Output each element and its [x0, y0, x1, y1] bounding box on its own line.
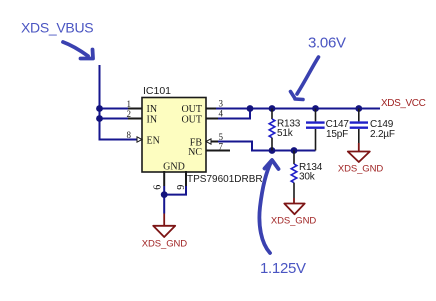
resistor R133	[269, 109, 301, 151]
svg-text:EN: EN	[147, 136, 160, 147]
svg-text:51k: 51k	[277, 128, 294, 139]
wire pin4 to VCC	[218, 109, 250, 119]
svg-text:XDS_VCC: XDS_VCC	[381, 98, 426, 109]
node junction pin1	[96, 105, 103, 112]
pin 6 stub	[163, 171, 165, 186]
svg-text:XDS_GND: XDS_GND	[338, 164, 383, 175]
node junction R133 top	[269, 105, 276, 112]
svg-text:3: 3	[219, 99, 224, 109]
svg-text:2: 2	[127, 109, 132, 119]
svg-text:4: 4	[219, 109, 224, 119]
svg-text:NC: NC	[188, 147, 202, 158]
svg-text:8: 8	[127, 130, 132, 140]
pin 2 stub	[128, 118, 142, 120]
pin 1 stub	[128, 108, 142, 110]
ground XDS_GND under IC	[142, 214, 187, 250]
svg-text:15pF: 15pF	[326, 129, 348, 140]
capacitor C149	[350, 109, 395, 144]
wire pin1	[100, 108, 129, 110]
svg-text:TPS79601DRBR: TPS79601DRBR	[187, 174, 263, 185]
ground XDS_GND under C149	[338, 143, 383, 175]
pin 7 stub NC	[206, 150, 230, 152]
pin EN input triangle	[137, 137, 142, 142]
svg-text:OUT: OUT	[181, 115, 202, 126]
annotation arrow to 1.125V node	[259, 160, 278, 253]
wire GND pin6	[163, 186, 165, 214]
svg-text:2.2µF: 2.2µF	[370, 129, 395, 140]
node junction C149 top	[355, 105, 362, 112]
node junction pin4/VCC	[247, 105, 254, 112]
svg-text:OUT: OUT	[181, 104, 202, 115]
svg-text:IC101: IC101	[143, 85, 171, 97]
pin 5 stub	[206, 141, 218, 143]
svg-text:IN: IN	[147, 104, 158, 115]
IC U=IC101 body	[142, 98, 206, 173]
svg-text:GND: GND	[163, 162, 185, 173]
svg-text:30k: 30k	[299, 172, 316, 183]
pin 3 stub	[206, 108, 218, 110]
pin FB output triangle	[206, 139, 211, 144]
wire pin2	[100, 118, 129, 120]
svg-text:1: 1	[127, 99, 132, 109]
pin 9 stub	[185, 171, 187, 186]
node junction R133 bottom	[269, 147, 276, 154]
svg-text:1.125V: 1.125V	[260, 260, 306, 277]
annotation arrow to XDS_VBUS wire	[63, 42, 93, 59]
wire VCC net	[216, 108, 380, 110]
node junction R134 top	[291, 147, 298, 154]
svg-text:IN: IN	[147, 115, 158, 126]
node junction GND	[161, 191, 168, 198]
svg-text:XDS_GND: XDS_GND	[271, 216, 316, 227]
wire GND pin9	[164, 186, 186, 195]
wire FB net	[218, 142, 316, 151]
svg-text:XDS_GND: XDS_GND	[142, 239, 187, 250]
ground XDS_GND under R134	[271, 198, 316, 227]
node junction C147 top	[312, 105, 319, 112]
svg-text:3.06V: 3.06V	[308, 34, 346, 51]
svg-text:6: 6	[153, 185, 164, 190]
pin 4 stub	[206, 118, 218, 120]
svg-text:5: 5	[219, 132, 224, 142]
svg-text:XDS_VBUS: XDS_VBUS	[21, 20, 93, 36]
wire XDS_VBUS vertical bus	[100, 65, 138, 140]
node junction pin2	[96, 115, 103, 122]
annotation arrow to 3.06V node	[291, 57, 319, 100]
svg-text:7: 7	[219, 142, 224, 152]
resistor R134	[291, 151, 323, 199]
capacitor C147	[306, 109, 349, 151]
